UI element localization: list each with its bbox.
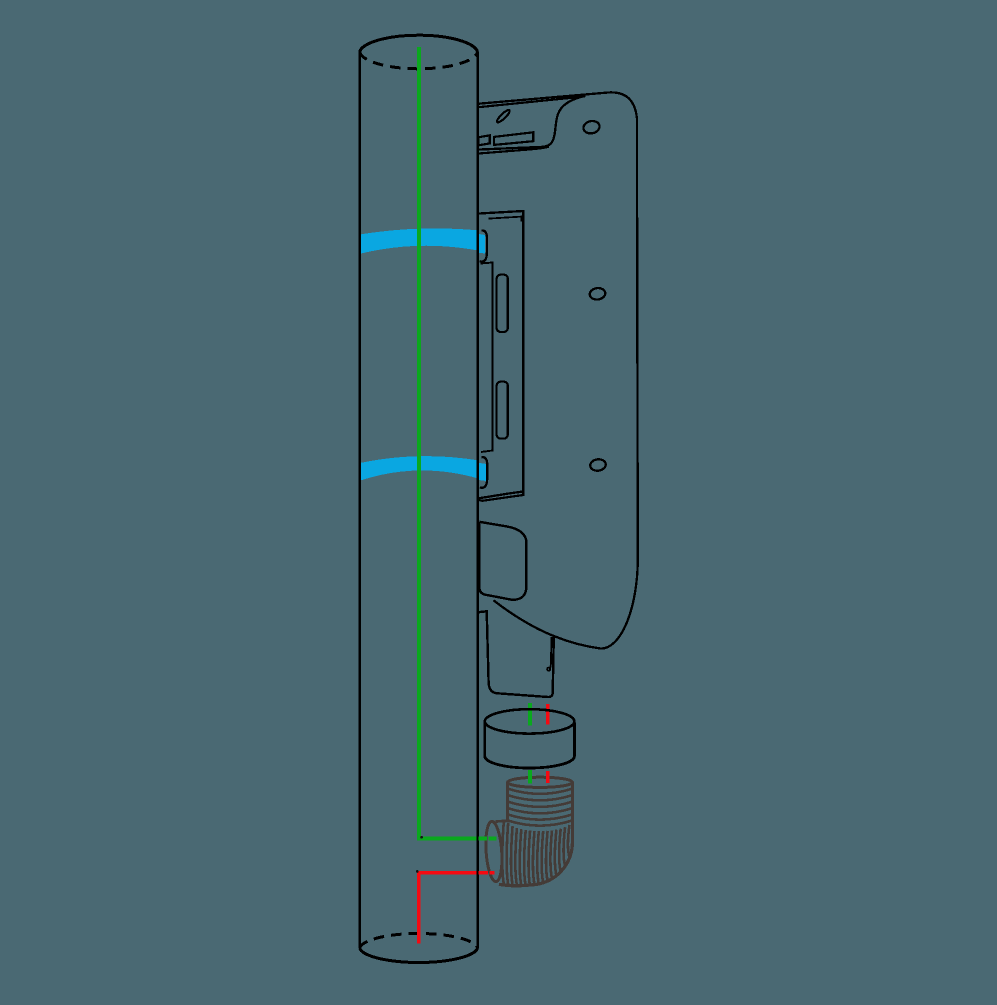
strap loop 1 outline [480,230,488,261]
green corner dot [420,836,423,839]
lower clamp tab left edge [478,522,480,592]
flange top thickness edge [478,97,585,108]
bracket neck inner curve [478,96,586,150]
elbow bottom edge [499,884,531,886]
channel slot lower [497,382,508,439]
elbow vertical pipe right side and sweep [531,783,572,885]
screw hole lower [589,458,606,471]
elbow horizontal pipe top edge [496,819,508,823]
lower clamp tab [479,522,526,600]
strap channel inner top line [489,217,522,222]
flange bottom thickness edge [478,147,549,154]
alignment tick red lower [546,771,550,783]
elbow vertical pipe left side [506,783,509,821]
strap band 1 loop piece [478,234,485,254]
bracket body outline [478,92,638,648]
strap band 1 [361,228,479,253]
flange rectangular slot [494,132,533,145]
alignment tick green upper [528,703,532,726]
elbow vertical pipe threads [508,789,573,794]
pole cylinder right side [476,52,479,948]
channel slot upper [497,275,508,332]
pole top ellipse dashed arc [360,52,478,69]
pole bottom ellipse solid arc [360,948,478,963]
connector housing [478,611,554,697]
green centerline vertical [417,47,496,841]
pole top ellipse solid arc [360,35,478,52]
alignment tick red upper [546,704,550,725]
cap puck sides and bottom [485,723,575,769]
elbow fitting group [484,777,572,886]
cap puck top ellipse [485,709,575,733]
red leader line [417,871,495,943]
strap loop 2 outline [480,457,488,488]
flange slanted oval slot [496,109,512,124]
strap channel bottom foot [478,492,524,501]
pole bottom ellipse dashed arc [360,933,478,948]
antenna seam [549,637,552,669]
alignment tick green lower [528,770,532,783]
elbow end cap ellipse [484,821,504,882]
pole cylinder left side [358,52,361,948]
screw hole top [582,120,600,135]
strap band 2 loop piece [478,463,486,481]
strap band 2 [361,456,479,480]
elbow top rim [508,777,573,787]
screw hole middle [589,287,606,300]
elbow horizontal pipe threads [502,821,504,884]
flange small left tab [478,135,490,145]
strap channel outline [478,211,524,499]
red corner dot [416,870,419,873]
strap channel inner plate edge [481,263,493,453]
